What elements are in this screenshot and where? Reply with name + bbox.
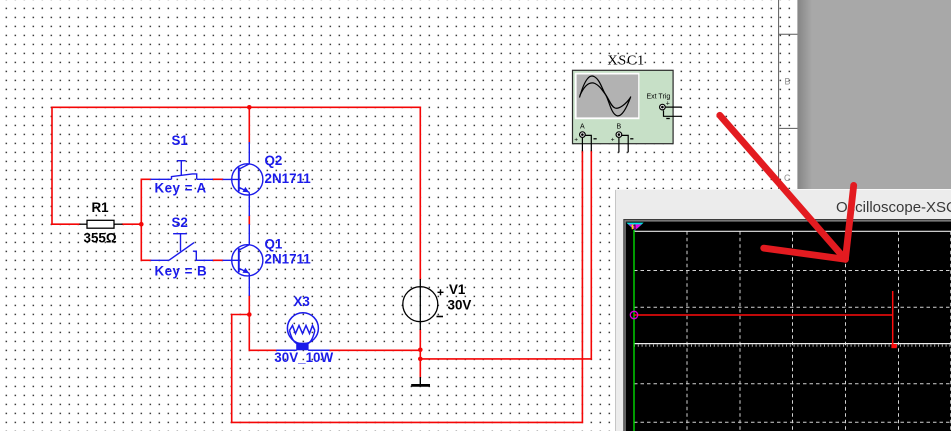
svg-text:XSC1: XSC1 (608, 54, 645, 69)
svg-text:355Ω: 355Ω (84, 231, 117, 246)
svg-text:Q2: Q2 (265, 153, 283, 168)
svg-text:30V_10W: 30V_10W (274, 350, 333, 365)
svg-text:2N1711: 2N1711 (265, 252, 312, 267)
svg-text:+: + (611, 137, 615, 144)
svg-text:S1: S1 (172, 133, 189, 148)
svg-text:Q1: Q1 (265, 237, 283, 252)
svg-text:V1: V1 (449, 282, 466, 297)
svg-text:Ext Trig: Ext Trig (647, 93, 671, 100)
svg-text:+: + (574, 137, 578, 144)
svg-text:B: B (617, 124, 622, 131)
svg-text:S2: S2 (172, 215, 188, 230)
svg-text:2N1711: 2N1711 (265, 171, 312, 186)
svg-text:Key = A: Key = A (155, 181, 207, 196)
svg-text:+: + (666, 100, 670, 107)
svg-text:1: 1 (633, 224, 637, 231)
svg-text:B: B (785, 76, 791, 86)
svg-text:C: C (784, 173, 791, 183)
svg-text:30V: 30V (448, 298, 472, 313)
svg-text:X3: X3 (294, 294, 310, 309)
svg-text:A: A (580, 124, 585, 131)
svg-text:Key = B: Key = B (155, 264, 208, 279)
svg-text:R1: R1 (92, 200, 110, 215)
